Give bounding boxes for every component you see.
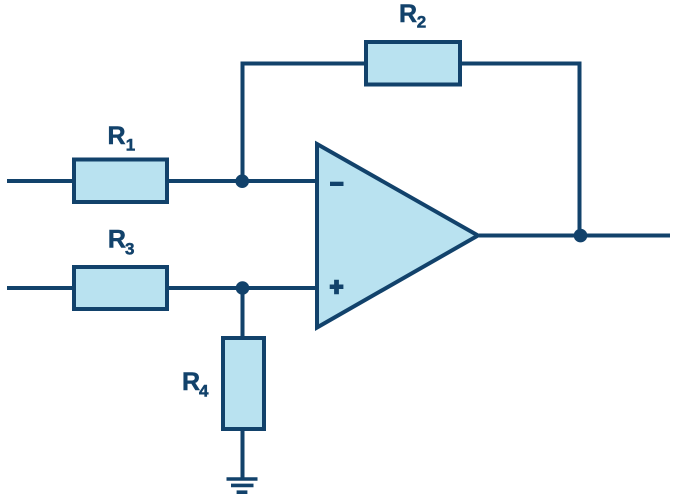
op-amp minus sign — [330, 182, 344, 186]
svg-text:4: 4 — [199, 381, 209, 400]
label R1 — [108, 122, 136, 155]
ground — [227, 479, 258, 492]
wire: output line — [479, 234, 670, 238]
wire: R4 branch to ground — [241, 288, 245, 479]
svg-text:R: R — [108, 226, 126, 254]
op-amp plus sign — [330, 280, 344, 294]
svg-text:R: R — [108, 122, 126, 150]
resistor R1 — [74, 160, 167, 203]
resistor R2 — [366, 42, 460, 85]
wire: non-inverting input line — [7, 286, 317, 290]
resistor R4 — [223, 338, 264, 429]
svg-text:R: R — [182, 368, 200, 396]
svg-text:3: 3 — [125, 239, 134, 258]
resistor R3 — [74, 267, 167, 309]
node: junction at non-inverting input — [236, 281, 250, 295]
label R3 — [108, 226, 135, 259]
node: junction at inverting input — [235, 174, 249, 188]
svg-text:1: 1 — [126, 135, 135, 154]
label R4 — [182, 368, 209, 400]
wire: inverting input line — [7, 179, 317, 183]
svg-text:2: 2 — [417, 12, 426, 31]
svg-text:R: R — [399, 0, 417, 28]
node: junction at output — [574, 229, 588, 243]
label R2 — [399, 0, 426, 31]
op-amp U1 — [317, 144, 478, 328]
wire: feedback loop (left vertical, top horizontal, right vertical) — [243, 64, 580, 236]
